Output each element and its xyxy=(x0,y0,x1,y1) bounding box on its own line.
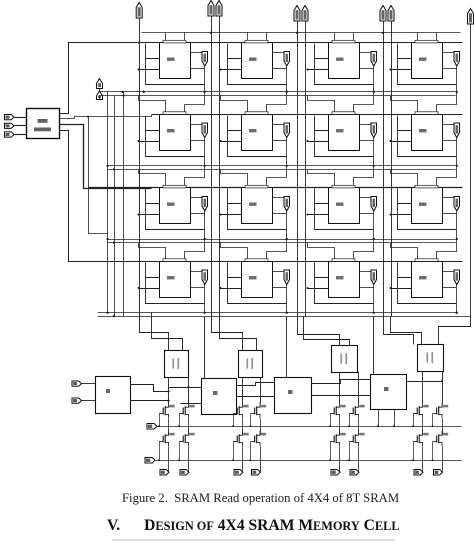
junction xyxy=(456,165,458,167)
transistor M13 xyxy=(330,431,346,447)
junction xyxy=(373,165,375,167)
bit line BL3 xyxy=(383,22,385,317)
wire BLB stub r2c0 xyxy=(139,214,160,216)
bit line BL1 xyxy=(211,17,213,317)
wire BLB stub r3c2 xyxy=(308,288,329,290)
block U_M3 xyxy=(371,375,407,410)
wire top bracket2 r1c1 xyxy=(267,92,287,115)
wire top pin r0c0 xyxy=(165,33,167,43)
top routing line xyxy=(142,32,461,34)
junction xyxy=(138,69,140,71)
sense amp label xyxy=(172,358,179,369)
wire M13 source down xyxy=(339,447,341,472)
wire bitline to sense xyxy=(384,317,414,345)
port RBL r1c1 xyxy=(284,123,290,138)
wire gate stub M11 xyxy=(233,442,235,461)
junction xyxy=(382,32,384,34)
wire gate stub M5 xyxy=(330,414,332,427)
wire gate stub M1 xyxy=(159,414,161,427)
wire top pin r0c2 xyxy=(334,33,336,43)
port RBL r2c3 xyxy=(454,197,460,212)
wire M3-M11 xyxy=(242,419,244,435)
wire SAE0 xyxy=(82,383,96,385)
wire M7-M15 xyxy=(422,419,424,435)
port RBL r0c2 xyxy=(371,52,377,67)
input port WE xyxy=(97,91,103,100)
wire port drop r1c2 xyxy=(373,138,375,166)
wire to RBL port r0c3 xyxy=(443,52,455,54)
wire under cell r2c3 xyxy=(398,204,457,230)
wire under cell r3c3 xyxy=(398,278,457,304)
wire BL stub r2c3 xyxy=(398,189,412,204)
wire top bracket r1c1 xyxy=(221,96,248,115)
cell label 8T xyxy=(336,203,344,206)
transistor M12 xyxy=(251,431,267,447)
cell top tab xyxy=(245,259,268,262)
wire gate stub M16 xyxy=(432,442,434,461)
transistor M16 xyxy=(433,431,449,447)
output port O2 xyxy=(234,470,243,476)
junction xyxy=(373,238,375,240)
input port BL3 xyxy=(380,6,386,22)
wire port drop r3c0 xyxy=(204,285,206,313)
junction xyxy=(373,312,375,314)
wire top bracket r1c2 xyxy=(308,96,335,115)
output port O5 xyxy=(350,470,359,476)
junction xyxy=(138,140,140,142)
junction xyxy=(250,425,252,427)
junction xyxy=(158,459,160,461)
cell label 8T xyxy=(167,129,175,132)
wire under cell r0c0 xyxy=(146,59,205,85)
wire port drop r0c3 xyxy=(456,67,458,92)
junction xyxy=(329,459,331,461)
wire M3 pin1 down xyxy=(378,410,380,427)
port RBL r0c1 xyxy=(284,52,290,67)
sense amp label xyxy=(246,358,253,369)
junction xyxy=(390,140,392,142)
wire under cell r2c0 xyxy=(146,204,205,230)
SRAM cell U10 xyxy=(242,188,273,224)
wire row3 tap xyxy=(89,117,108,234)
wire BLB stub r2c1 xyxy=(221,214,242,216)
block U_M1 xyxy=(202,379,237,415)
junction xyxy=(106,312,108,314)
wire under cell r1c2 xyxy=(315,131,374,157)
junction xyxy=(204,312,206,314)
cell top tab xyxy=(332,40,355,43)
wire under cell r3c0 xyxy=(146,278,205,304)
wire gate stub M9 xyxy=(159,442,161,461)
wire under cell r2c2 xyxy=(315,204,374,230)
wire under cell r1c0 xyxy=(146,131,205,157)
junction xyxy=(113,242,115,244)
output port O4 xyxy=(331,470,340,476)
port RBL r2c1 xyxy=(284,197,290,212)
wire M1 in1 xyxy=(169,387,202,389)
port RBL r3c0 xyxy=(202,270,208,285)
cell top tab xyxy=(332,185,355,188)
junction xyxy=(122,91,124,93)
SRAM cell U13 xyxy=(160,262,191,298)
cell label 8T xyxy=(249,129,257,132)
wire port drop r0c0 xyxy=(204,67,206,92)
junction xyxy=(307,287,309,289)
wire M9 source down xyxy=(168,447,170,472)
label xyxy=(213,391,218,395)
wire BL stub r3c3 xyxy=(398,263,412,278)
port RBL r3c3 xyxy=(454,270,460,285)
wire SA3 out2 down xyxy=(442,372,444,404)
junction xyxy=(432,425,434,427)
wire SA1 out2 down xyxy=(260,378,262,404)
bit line BLB1 xyxy=(219,17,221,317)
wire BL stub r0c2 xyxy=(315,44,329,59)
wire top bracket2 r3c3 xyxy=(437,240,457,262)
wire rstub r0c2 xyxy=(360,68,374,70)
port RBL r2c2 xyxy=(371,197,377,212)
junction xyxy=(138,42,140,44)
row read line R0 xyxy=(105,91,456,93)
word line WL2 xyxy=(89,187,463,189)
junction xyxy=(307,140,309,142)
cell label 8T xyxy=(419,203,427,206)
junction xyxy=(286,91,288,93)
wire top pin2 r0c1 xyxy=(266,33,268,43)
vertical bus 3 xyxy=(123,92,125,317)
wire top bracket2 r2c3 xyxy=(437,166,457,188)
wire under cell r3c2 xyxy=(315,278,374,304)
wire bitline to sense xyxy=(140,317,169,351)
junction xyxy=(204,238,206,240)
input port SAE1 xyxy=(72,398,82,403)
junction xyxy=(390,287,392,289)
wire top bracket2 r1c3 xyxy=(437,92,457,115)
cell top tab xyxy=(163,40,186,43)
row read line R3 xyxy=(98,312,458,314)
SRAM cell U15 xyxy=(329,262,360,298)
wire gate stub M15 xyxy=(413,442,415,461)
junction xyxy=(412,459,414,461)
junction xyxy=(432,459,434,461)
cell top tab xyxy=(415,40,438,43)
junction xyxy=(143,91,145,93)
junction xyxy=(210,32,212,34)
label xyxy=(288,390,293,394)
wire SAE1 xyxy=(82,400,96,402)
SRAM cell U16 xyxy=(412,262,443,298)
port RBL r1c0 xyxy=(202,123,208,138)
input port RE2 xyxy=(147,424,157,430)
wire BLB stub r1c1 xyxy=(221,141,242,143)
sense amp label xyxy=(426,352,433,363)
wire top bracket2 r3c2 xyxy=(354,240,374,262)
gate line RE2 xyxy=(158,426,462,428)
wire BLB stub r0c2 xyxy=(308,69,329,71)
cell top tab xyxy=(163,185,186,188)
junction xyxy=(204,91,206,93)
wire bitline to sense xyxy=(212,317,243,351)
wire port drop r2c1 xyxy=(286,212,288,240)
wire SA2 out1 down xyxy=(339,373,341,404)
cell label 8T xyxy=(336,276,344,279)
wire BLB stub r0c3 xyxy=(391,69,412,71)
junction xyxy=(167,400,169,402)
junction xyxy=(441,380,443,382)
output port O1 xyxy=(180,470,189,476)
wire port drop r1c0 xyxy=(204,138,206,166)
wire under cell r1c1 xyxy=(228,131,287,157)
decoder U_DEC xyxy=(27,109,60,139)
vertical bus 1 xyxy=(107,92,109,314)
cell label 8T xyxy=(419,58,427,61)
wire port drop r2c0 xyxy=(204,212,206,240)
junction xyxy=(106,165,108,167)
junction xyxy=(456,91,458,93)
SRAM cell U1 xyxy=(160,43,191,79)
transistor M14 xyxy=(349,431,365,447)
cell top tab xyxy=(245,185,268,188)
wire bitline to sense xyxy=(391,317,422,345)
wire port drop r0c1 xyxy=(286,67,288,92)
junction xyxy=(167,390,169,392)
transistor M15 xyxy=(413,431,429,447)
wire gate stub M6 xyxy=(349,414,351,427)
junction xyxy=(158,425,160,427)
wire to RBL port r2c2 xyxy=(360,197,372,199)
SRAM cell U4 xyxy=(412,43,443,79)
port RBL r1c2 xyxy=(371,123,377,138)
transistor M2 xyxy=(179,403,195,419)
wire port drop r2c3 xyxy=(456,212,458,240)
wire WE xyxy=(100,96,105,100)
wire to RBL port r0c1 xyxy=(273,52,285,54)
wire bitline to sense xyxy=(298,317,340,346)
input port RE xyxy=(97,79,103,89)
wire top bracket r3c2 xyxy=(308,243,335,262)
wire top bracket2 r2c2 xyxy=(354,166,374,188)
cell label 8T xyxy=(249,203,257,206)
wire SA3 out1 down xyxy=(422,372,424,404)
junction xyxy=(348,425,350,427)
wire rstub r2c1 xyxy=(273,213,287,215)
junction xyxy=(390,69,392,71)
wire rstub r2c2 xyxy=(360,213,374,215)
wire M12 source down xyxy=(260,447,262,472)
wire top bracket2 r3c1 xyxy=(267,240,287,262)
wire BL stub r2c1 xyxy=(228,189,242,204)
wire port drop r2c2 xyxy=(373,212,375,240)
cell top tab xyxy=(163,259,186,262)
word line WL0 xyxy=(69,42,463,44)
wire top bracket2 r3c0 xyxy=(185,240,205,262)
wire rstub r3c2 xyxy=(360,287,374,289)
wire M11 source down xyxy=(242,447,244,472)
cell label 8T xyxy=(249,276,257,279)
junction xyxy=(329,425,331,427)
wire M4-M12 xyxy=(260,419,262,435)
wire top pin r0c1 xyxy=(247,33,249,43)
block label xyxy=(106,389,110,393)
junction xyxy=(286,238,288,240)
row write line W2 xyxy=(108,242,456,244)
wire SA2 out2 down xyxy=(358,372,360,404)
wire WL0 route xyxy=(60,43,142,114)
input port BL1 xyxy=(208,1,214,17)
wire to RBL port r1c2 xyxy=(360,124,372,126)
output port O0 xyxy=(160,470,169,476)
wire M2-M3 a xyxy=(312,380,371,384)
cell top tab xyxy=(415,112,438,115)
cell label 8T xyxy=(336,58,344,61)
wire BLB stub r1c0 xyxy=(139,141,160,143)
wire bitline to sense xyxy=(220,317,257,351)
input port A1 xyxy=(5,123,15,128)
SRAM cell U12 xyxy=(412,188,443,224)
wire BL stub r0c1 xyxy=(228,44,242,59)
wire A2 xyxy=(15,134,27,136)
transistor M8 xyxy=(433,403,449,419)
wire port drop r1c3 xyxy=(456,138,458,166)
wire BLB stub r0c0 xyxy=(139,69,160,71)
row read line R1 xyxy=(108,165,456,167)
input port BLB0 xyxy=(468,9,474,25)
bit line BL2 xyxy=(297,22,299,317)
wire A0 xyxy=(15,117,27,119)
input port A2 xyxy=(5,132,15,137)
junction xyxy=(377,425,379,427)
junction xyxy=(232,425,234,427)
wire M6-M14 xyxy=(358,419,360,435)
wire BL stub r2c0 xyxy=(146,189,160,204)
wire gate stub M10 xyxy=(179,442,181,461)
label xyxy=(384,387,389,391)
junction xyxy=(220,69,222,71)
wire to RBL port r3c1 xyxy=(273,271,285,273)
wire bitline to sense xyxy=(152,313,183,351)
wire to RBL port r1c0 xyxy=(191,124,203,126)
junction xyxy=(178,425,180,427)
cell label 8T xyxy=(419,276,427,279)
port RBL r1c3 xyxy=(454,123,460,138)
junction xyxy=(296,32,298,34)
transistor M5 xyxy=(330,403,346,419)
cell top tab xyxy=(415,259,438,262)
wire WL3 route xyxy=(60,131,152,262)
wire RBL2 to M3 xyxy=(373,317,375,375)
row write line W3 xyxy=(98,316,471,318)
junction xyxy=(390,214,392,216)
cell top tab xyxy=(332,112,355,115)
wire M14 source down xyxy=(358,447,360,472)
wire BL stub r1c2 xyxy=(315,116,329,131)
junction xyxy=(178,459,180,461)
wire gate stub M13 xyxy=(330,442,332,461)
SRAM cell U2 xyxy=(242,43,273,79)
input port BLB3 xyxy=(388,6,394,22)
wire bitline to sense xyxy=(304,317,350,346)
block U_M2 xyxy=(275,378,312,414)
wire port drop r1c1 xyxy=(286,138,288,166)
sense amp SA2 xyxy=(332,346,358,373)
wire SA0 out2 down xyxy=(188,377,190,404)
gate line WE2 xyxy=(156,460,462,462)
wire rstub r1c1 xyxy=(273,140,287,142)
wire BLB stub r2c3 xyxy=(391,214,412,216)
wire BLB stub r2c2 xyxy=(308,214,329,216)
junction xyxy=(286,165,288,167)
transistor M7 xyxy=(413,403,429,419)
wire top bracket2 r2c1 xyxy=(267,166,287,188)
wire M1 in2 xyxy=(181,403,202,405)
junction xyxy=(106,238,108,240)
wire top bracket r2c3 xyxy=(391,170,418,188)
wire rstub r1c2 xyxy=(360,140,374,142)
SRAM cell U5 xyxy=(160,115,191,151)
junction xyxy=(122,94,124,96)
junction xyxy=(456,312,458,314)
wire BL stub r1c3 xyxy=(398,116,412,131)
port RBL r3c2 xyxy=(371,270,377,285)
wire M15 source down xyxy=(422,447,424,472)
SRAM cell U9 xyxy=(160,188,191,224)
transistor M6 xyxy=(349,403,365,419)
sense amp SA3 xyxy=(418,345,444,372)
wire gate stub M2 xyxy=(179,414,181,427)
input port SAE0 xyxy=(72,381,82,386)
wire BL stub r1c0 xyxy=(146,116,160,131)
wire gate stub M4 xyxy=(250,414,252,427)
SRAM cell U11 xyxy=(329,188,360,224)
wire M1-M9 xyxy=(168,419,170,435)
junction xyxy=(87,116,89,118)
junction xyxy=(307,214,309,216)
cell label 8T xyxy=(249,58,257,61)
wire BL stub r0c3 xyxy=(398,44,412,59)
input port BL2 xyxy=(294,6,300,22)
wire top bracket r3c3 xyxy=(391,243,418,262)
sense amp SA1 xyxy=(239,351,263,378)
junction xyxy=(456,312,458,314)
wire top pin2 r0c2 xyxy=(353,33,355,43)
port RBL r0c0 xyxy=(202,52,208,67)
transistor M3 xyxy=(233,403,249,419)
wire rstub r0c1 xyxy=(273,68,287,70)
wire under cell r0c1 xyxy=(228,59,287,85)
wire gate stub M7 xyxy=(413,414,415,427)
wire rstub r3c3 xyxy=(443,287,457,289)
wire gate stub M12 xyxy=(250,442,252,461)
wire M2-M10 xyxy=(188,419,190,435)
input port A0 xyxy=(5,115,15,120)
wire BL stub r2c2 xyxy=(315,189,329,204)
wire to RBL port r3c0 xyxy=(191,271,203,273)
wire SA1 out1 down xyxy=(242,378,244,404)
wire M2-M3 b xyxy=(312,395,371,397)
wire to RBL port r2c3 xyxy=(443,197,455,199)
cell label 8T xyxy=(167,276,175,279)
wire M5-M13 xyxy=(339,419,341,435)
output port O6 xyxy=(414,470,423,476)
wire M1-M2 b xyxy=(237,396,275,398)
decoder label RW DECODER xyxy=(34,119,51,131)
wire WL1 route xyxy=(60,115,152,119)
cell label 8T xyxy=(336,129,344,132)
cell top tab xyxy=(245,40,268,43)
wire gate stub M14 xyxy=(349,442,351,461)
cell label 8T xyxy=(167,58,175,61)
junction xyxy=(348,459,350,461)
